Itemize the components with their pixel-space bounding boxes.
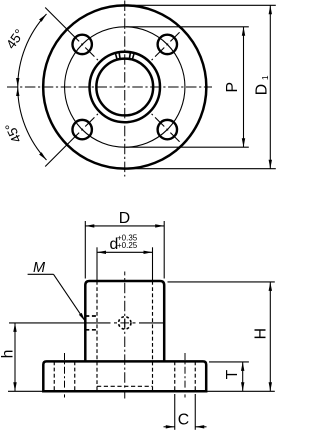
D1 extension line bottom: [126, 168, 276, 170]
45 degree dimension arc: [18, 14, 47, 160]
C dimension line right tail with arrow: [195, 426, 206, 428]
vertical centerline: [124, 1, 126, 177]
hole centerline top-right diagonal: [152, 32, 180, 60]
bore hidden line left: [96, 281, 98, 391]
h bottom extension line: [8, 390, 43, 392]
H top extension line: [168, 281, 275, 283]
d extension line right: [152, 247, 154, 280]
boss outline: [85, 281, 164, 361]
svg-text:1: 1: [260, 75, 270, 80]
bolt hole centerline right: [184, 353, 186, 398]
hole centerline bottom-right diagonal: [152, 114, 180, 142]
boss circle: [90, 52, 161, 123]
outer circle D1: [43, 5, 206, 168]
flange outline: [43, 361, 206, 391]
bolt hole bottom-right: [158, 120, 177, 139]
P dimension line: [243, 27, 245, 147]
D1 extension line top: [126, 4, 276, 6]
screw hole horizontal centerline: [85, 322, 110, 324]
D dimension line: [85, 225, 164, 227]
main vertical centerline: [124, 272, 126, 399]
P extension line top: [126, 26, 249, 28]
bore hidden line right: [152, 281, 154, 391]
bottom recess hidden line: [97, 385, 153, 387]
tapped hole ticks between boss and bore circles: [115, 53, 117, 60]
T top extension line: [209, 361, 249, 363]
d extension line left: [96, 247, 98, 280]
D extension line right: [163, 221, 165, 279]
svg-text:T: T: [224, 369, 241, 379]
T dimension line: [242, 362, 244, 391]
horizontal centerline: [7, 86, 212, 88]
arrow at arc bottom end: [39, 152, 48, 161]
C dimension line left tail with arrow: [164, 426, 175, 428]
set screw hole hidden lines: [85, 315, 97, 317]
d dimension line: [97, 251, 153, 253]
P extension line bottom: [126, 146, 249, 148]
bottom extension line right (T and H): [206, 390, 275, 392]
C extension line left: [174, 394, 176, 430]
hole centerline bottom-left diagonal: [70, 114, 98, 142]
C extension line right: [194, 394, 196, 430]
bolt hole top-left: [72, 35, 91, 54]
bolt hole top-right: [158, 35, 177, 54]
label D1: [253, 75, 270, 95]
M leader line: [54, 274, 85, 320]
D1 dimension line: [269, 5, 271, 168]
D extension line left: [84, 221, 86, 279]
M leader arrow: [79, 313, 87, 322]
flange bolt hole hidden lines: [53, 361, 55, 391]
arrow at arc top end: [39, 13, 48, 22]
tapped hole M dashed circle: [119, 317, 131, 329]
screw axis / h extension line: [9, 322, 85, 324]
svg-text:H: H: [252, 328, 269, 339]
svg-text:D: D: [253, 84, 270, 95]
bolt hole centerline left: [64, 353, 66, 398]
arrows at arc middle on horizontal centerline: [16, 78, 19, 87]
bolt hole bottom-left: [72, 120, 91, 139]
H dimension line: [269, 282, 271, 391]
svg-text:h: h: [0, 350, 16, 359]
h dimension line: [14, 323, 16, 391]
svg-text:+0.25: +0.25: [117, 241, 138, 250]
bore circle: [96, 59, 153, 116]
M leader underline: [28, 273, 54, 275]
svg-text:C: C: [178, 412, 189, 429]
M hole center cross: [120, 322, 129, 324]
svg-text:M: M: [33, 260, 46, 276]
hole centerline top-left diagonal: [70, 32, 98, 60]
svg-text:P: P: [224, 82, 241, 93]
bolt circle P: [65, 27, 185, 147]
svg-text:D: D: [119, 210, 130, 227]
